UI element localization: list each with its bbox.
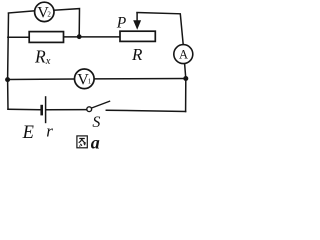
- node junction dot right (V1 tap): [183, 76, 188, 81]
- svg-text:1: 1: [88, 78, 92, 86]
- wire Rx to node to rheostat: [64, 36, 121, 38]
- rheostat R: [120, 31, 155, 41]
- wire slider to top right corner and down to ammeter: [137, 13, 183, 45]
- svg-text:2: 2: [47, 10, 51, 18]
- wire switch to bottom right corner: [106, 110, 185, 111]
- resistor Rx: [29, 32, 63, 43]
- svg-text:R: R: [34, 47, 46, 67]
- ammeter A: [174, 45, 193, 64]
- wire bottom: corner to battery: [8, 108, 41, 111]
- battery E r: [42, 96, 46, 123]
- svg-text:E: E: [22, 123, 34, 143]
- switch S: [87, 101, 110, 112]
- svg-text:P: P: [116, 14, 127, 31]
- svg-text:x: x: [45, 56, 51, 67]
- voltmeter V2: [35, 2, 54, 21]
- caption 图 a: [77, 132, 100, 152]
- node junction dot between Rx and R: [77, 34, 82, 39]
- wire left vertical: [7, 13, 10, 109]
- svg-text:r: r: [46, 122, 53, 141]
- voltmeter V1: [75, 69, 95, 89]
- wire V1 row right: [94, 78, 186, 80]
- label Rx: [34, 47, 51, 68]
- wire middle left to Rx: [8, 36, 29, 38]
- wire ammeter to bottom right corner: [185, 64, 186, 112]
- wire top left horizontal to V2: [9, 11, 35, 13]
- svg-text:S: S: [92, 114, 100, 131]
- wire battery to switch: [46, 109, 87, 111]
- svg-text:A: A: [179, 48, 188, 62]
- wire V1 row left: [8, 78, 75, 81]
- wire V2 right to corner and down to node: [54, 9, 80, 37]
- svg-text:R: R: [131, 45, 143, 64]
- slider P arrow: [133, 13, 141, 30]
- svg-text:a: a: [91, 132, 100, 152]
- node junction dot left (V1 tap): [5, 77, 10, 82]
